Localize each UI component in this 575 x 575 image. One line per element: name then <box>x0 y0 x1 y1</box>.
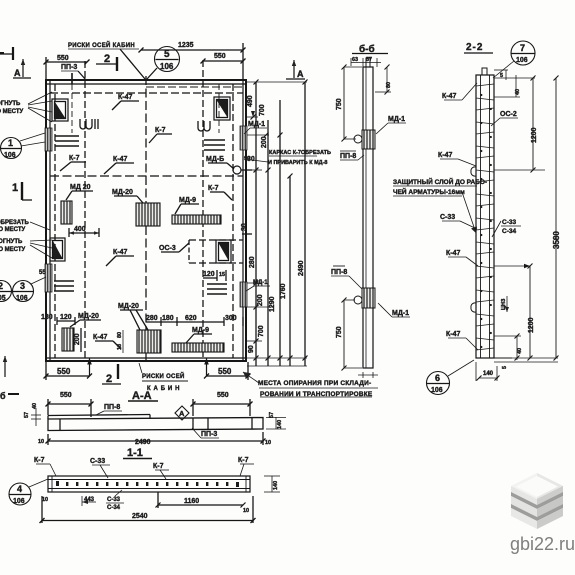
svg-text:2490: 2490 <box>298 260 305 276</box>
svg-text:2: 2 <box>104 53 110 65</box>
MD-9 bottom hatched bar <box>172 343 224 352</box>
2-2 label K-47 no1 <box>442 83 477 100</box>
small dims 80 18 bottom center <box>117 330 123 353</box>
svg-text:К-7: К-7 <box>34 457 45 464</box>
svg-text:К-7: К-7 <box>208 185 219 192</box>
2-2 loop bumps left <box>471 167 476 176</box>
svg-text:К-47: К-47 <box>113 156 127 163</box>
svg-text:106: 106 <box>13 498 25 505</box>
b-b label PP-8 top <box>340 151 364 160</box>
svg-text:2: 2 <box>0 281 3 291</box>
section A arrow top-right <box>286 60 305 79</box>
section A arrow top-left <box>13 59 31 78</box>
b-b label MD-1 bottom <box>378 303 410 317</box>
dimension 1235 top <box>139 42 246 79</box>
svg-text:ПП-8: ПП-8 <box>331 269 347 276</box>
svg-text:К-7: К-7 <box>153 463 164 470</box>
svg-text:МД-1: МД-1 <box>253 280 268 286</box>
svg-text:ЗАЩИТНЫЙ СЛОЙ ДО РАБО-: ЗАЩИТНЫЙ СЛОЙ ДО РАБО- <box>393 177 487 186</box>
2-2 label K-47 no3 <box>446 250 478 266</box>
circle 1/106 <box>1 133 46 159</box>
svg-text:ЧЕЙ АРМАТУРЫ-16мм: ЧЕЙ АРМАТУРЫ-16мм <box>393 187 465 196</box>
axis dashed vertical x233 <box>232 84 234 358</box>
2-2 dim 140 bottom <box>476 362 500 381</box>
2-2 dim 3580 <box>494 76 561 361</box>
svg-text:550: 550 <box>57 367 71 376</box>
anchor plate bottom-left box <box>50 238 65 261</box>
svg-text:1200: 1200 <box>531 127 538 143</box>
circle 3/106 <box>13 277 47 302</box>
svg-text:90: 90 <box>248 345 255 353</box>
svg-text:750: 750 <box>336 98 343 110</box>
right dim chain line x300 <box>289 176 291 366</box>
svg-text:К-7: К-7 <box>155 127 166 134</box>
right chain slash ticks <box>251 80 308 361</box>
A-A small dim 57 left <box>24 408 41 426</box>
logo slab1 side <box>511 486 563 505</box>
svg-text:2-2: 2-2 <box>466 42 483 53</box>
svg-text:300: 300 <box>225 315 237 322</box>
svg-text:106: 106 <box>516 57 528 64</box>
anchor plate top-right triangle <box>217 100 228 118</box>
svg-text:К-47: К-47 <box>113 249 127 256</box>
svg-text:КАРКАС К-7ОБРЕЗАТЬ: КАРКАС К-7ОБРЕЗАТЬ <box>269 150 331 156</box>
axis dashed horizontal y93 partial <box>50 92 243 94</box>
logo gap1 dark band <box>511 492 563 509</box>
rebar bars bottom-right <box>207 284 227 294</box>
A-A label PP-3 <box>192 428 219 438</box>
note karkas K-7 obrezat <box>244 150 331 166</box>
1-1 label K-7 mid <box>153 463 169 479</box>
svg-text:МД-20: МД-20 <box>118 303 139 310</box>
anchor plate bottom-right box <box>216 240 231 263</box>
logo slab2 side <box>511 496 563 517</box>
svg-text:С-34: С-34 <box>107 505 121 511</box>
section mark 2 bottom <box>102 364 121 385</box>
svg-text:550: 550 <box>214 53 226 60</box>
svg-text:1: 1 <box>12 182 18 194</box>
note riski osei kabin top <box>68 41 145 79</box>
1-1 dim 1160 <box>156 492 246 508</box>
label K-47 bottom <box>93 334 121 349</box>
2-2 dim 1200 bottom <box>494 264 535 361</box>
svg-text:РИСКИ ОСЕЙ: РИСКИ ОСЕЙ <box>142 372 185 380</box>
svg-text:1290: 1290 <box>269 296 276 312</box>
label MD 20 left <box>66 184 93 200</box>
svg-text:5: 5 <box>164 49 170 60</box>
2-2 dim 5 top <box>494 70 508 80</box>
b-b dim 750 top <box>336 65 362 142</box>
lifting loop circle right <box>233 166 241 174</box>
svg-text:700: 700 <box>258 325 265 337</box>
1-1 dim 443 <box>82 496 96 506</box>
circle 7/106 <box>493 41 535 78</box>
plan view panel outline outer <box>46 80 246 361</box>
section 1-1 title <box>123 447 152 459</box>
dim 30 at loop <box>241 156 255 176</box>
svg-text:200: 200 <box>261 136 268 148</box>
svg-text:ОТОГНУТЬ: ОТОГНУТЬ <box>0 239 23 245</box>
svg-text:18: 18 <box>117 344 123 350</box>
svg-text:С-34: С-34 <box>502 228 516 235</box>
1-1 rebar dots <box>56 481 239 487</box>
svg-text:ПО МЕСТУ: ПО МЕСТУ <box>0 109 23 115</box>
svg-text:40: 40 <box>32 403 38 409</box>
rebar bars top-right <box>204 140 225 150</box>
svg-text:140: 140 <box>483 371 494 377</box>
bottom dim 550 left <box>44 362 93 380</box>
svg-text:gbi22.ru: gbi22.ru <box>510 534 575 554</box>
svg-text:700: 700 <box>259 104 266 116</box>
label K-7 upper center <box>149 127 172 143</box>
label MD-1 right <box>244 121 267 134</box>
anchor plate bottom-right triangle <box>219 243 229 261</box>
svg-text:А: А <box>179 409 185 418</box>
b-b label MD-1 top <box>376 116 406 134</box>
circle 5/106 <box>147 47 180 80</box>
OC-3 dashed box bottom <box>189 262 243 264</box>
dim 90 bottom right vertical <box>248 345 255 353</box>
A-A dim 550 right <box>191 392 253 416</box>
note mesta opiraniya <box>243 372 378 398</box>
anchor plate top-left box <box>52 99 68 121</box>
A-A dim 550 left <box>46 392 94 417</box>
svg-text:К-47: К-47 <box>93 334 107 341</box>
svg-text:1160: 1160 <box>184 498 199 505</box>
b-b top dims 63 57 <box>351 57 381 67</box>
2-2 bottom base line <box>476 358 558 362</box>
svg-text:6: 6 <box>435 373 440 383</box>
svg-text:10: 10 <box>265 440 271 446</box>
svg-text:К-7: К-7 <box>69 155 80 162</box>
OC-3 dashed box top <box>189 239 243 241</box>
MD-20 bottom-left hatched block <box>62 328 74 351</box>
svg-text:5: 5 <box>502 366 508 369</box>
label OC-3 <box>159 243 189 252</box>
svg-text:105: 105 <box>0 295 6 302</box>
svg-text:1-1: 1-1 <box>127 447 143 459</box>
plan inner border left <box>49 80 51 361</box>
svg-text:К А Б И Н: К А Б И Н <box>147 386 180 392</box>
section 2-2 cut dashed centerline <box>145 76 147 362</box>
svg-text:ПП-8: ПП-8 <box>340 153 356 160</box>
svg-text:А: А <box>14 68 21 78</box>
marker b left with arrow <box>0 356 19 401</box>
svg-text:3: 3 <box>20 281 25 291</box>
2-2 dim 40 bottom <box>494 334 523 361</box>
1-1 beam outline <box>48 476 250 492</box>
MD-9 hatched bar <box>172 215 221 224</box>
svg-text:106: 106 <box>160 62 174 71</box>
label MD-1 lower right <box>246 280 270 291</box>
svg-text:280: 280 <box>146 315 158 322</box>
svg-text:А-А: А-А <box>132 390 152 402</box>
svg-text:МЕСТА ОПИРАНИЯ ПРИ СКЛАДИ-: МЕСТА ОПИРАНИЯ ПРИ СКЛАДИ- <box>258 380 371 387</box>
svg-text:ПП-3: ПП-3 <box>61 64 77 71</box>
svg-text:К-47: К-47 <box>438 152 452 159</box>
A-A label PP-8 <box>96 404 122 415</box>
svg-text:МД-1: МД-1 <box>388 116 405 123</box>
axis dashed vertical x204 <box>202 60 204 358</box>
svg-text:МД-20: МД-20 <box>112 189 133 196</box>
svg-text:МД-20: МД-20 <box>78 313 99 320</box>
2-2 top stub <box>482 68 487 75</box>
svg-text:МД-9: МД-9 <box>179 197 196 204</box>
MD-20 bottom-center hatched block <box>137 330 161 353</box>
MD-20 left hatched block <box>61 201 72 224</box>
1-1 label C-33 <box>90 458 110 478</box>
svg-text:80: 80 <box>117 332 123 338</box>
svg-text:А: А <box>297 69 304 79</box>
b-b dim 750 bottom <box>336 298 362 371</box>
A-A dim 57 right <box>266 412 286 429</box>
svg-text:180: 180 <box>162 315 174 322</box>
svg-text:620: 620 <box>185 315 197 322</box>
svg-text:400: 400 <box>74 226 86 233</box>
2-2 column body <box>476 75 494 358</box>
svg-text:550: 550 <box>57 55 69 62</box>
2-2 dim 40 top <box>494 75 521 97</box>
circle 4/106 <box>9 479 48 505</box>
note ne obrezat po mestu <box>0 220 50 233</box>
A-A beam outline <box>48 415 263 431</box>
svg-text:1760: 1760 <box>280 283 287 299</box>
2-2 label C-33 <box>440 214 477 229</box>
section mark 1 left <box>12 182 32 200</box>
svg-text:РИСКИ ОСЕЙ КАБИН: РИСКИ ОСЕЙ КАБИН <box>68 41 135 49</box>
svg-text:б: б <box>0 391 6 401</box>
axis dashed horizontal y87 <box>146 86 243 88</box>
svg-text:ПО МЕСТУ: ПО МЕСТУ <box>0 247 25 253</box>
svg-text:К-47: К-47 <box>446 331 460 338</box>
label MD-20 bottom-left <box>70 313 101 327</box>
label K-47 lower <box>106 249 134 266</box>
svg-text:К-7: К-7 <box>238 457 249 464</box>
anchor plate top-left triangle <box>55 102 66 119</box>
svg-text:7: 7 <box>520 43 525 53</box>
svg-text:106: 106 <box>4 152 16 159</box>
dim 300 bottom <box>224 315 243 326</box>
1-1 label K-7 right <box>238 457 254 476</box>
svg-text:1235: 1235 <box>178 42 194 49</box>
OC-3 dashed box left <box>188 240 190 263</box>
bottom dim 550 right <box>204 362 251 380</box>
2-2 rebar dots <box>480 94 492 348</box>
label MD-20 bottom-center with two leaders <box>118 303 148 330</box>
rebar bars top-left <box>55 136 79 146</box>
b-b bottom ticks <box>358 372 378 378</box>
svg-text:МД-1: МД-1 <box>248 121 265 128</box>
svg-text:180: 180 <box>41 314 53 321</box>
2-2 label K-47 no4 <box>446 331 478 350</box>
label MD-9 <box>175 197 199 214</box>
dim 200 vertical bottom-left <box>74 328 81 352</box>
label K-47 top <box>112 94 139 110</box>
svg-text:30: 30 <box>241 223 248 231</box>
dim 120 bottom-left <box>57 314 75 325</box>
note riski osei kabin bottom <box>139 363 188 392</box>
svg-text:120: 120 <box>203 271 215 278</box>
section A-A title <box>128 390 158 402</box>
circle 6/106 <box>427 360 475 395</box>
label MD-B mid-right <box>206 156 234 169</box>
svg-text:1: 1 <box>8 138 13 148</box>
label K-47 mid-left <box>104 156 134 174</box>
1-1 label C-33/C-34 <box>106 490 124 511</box>
right dim chain line x280 <box>279 100 281 366</box>
svg-text:МД-Б: МД-Б <box>206 156 224 163</box>
dim 30 lower right <box>241 223 252 234</box>
support mark left <box>87 358 92 376</box>
svg-text:10: 10 <box>42 497 48 503</box>
note otognut po mestu top-left <box>0 92 52 122</box>
svg-text:К-47: К-47 <box>118 94 132 101</box>
2-2 column ties <box>476 84 494 350</box>
section b-b title <box>352 43 388 55</box>
axis dashed vertical x55 <box>54 84 56 358</box>
rebar splice hatch right border bottom <box>240 282 247 307</box>
dim 620 bottom <box>177 315 224 322</box>
svg-text:ПП-3: ПП-3 <box>201 431 217 438</box>
svg-text:ПП-8: ПП-8 <box>104 404 120 411</box>
svg-text:57: 57 <box>24 412 30 418</box>
svg-text:10: 10 <box>38 439 44 445</box>
svg-text:550: 550 <box>218 367 232 376</box>
b-b column body <box>363 58 373 368</box>
svg-text:НЕ ОБРЕЗАТЬ: НЕ ОБРЕЗАТЬ <box>0 220 29 226</box>
b-b dim 80 top right <box>375 65 392 95</box>
A-A diamond A marker <box>175 406 189 420</box>
svg-text:140: 140 <box>277 420 283 429</box>
b-b top stub <box>366 58 370 67</box>
svg-text:С-33: С-33 <box>440 214 455 221</box>
note otognut po mestu bottom-left <box>0 239 52 258</box>
svg-text:550: 550 <box>60 392 72 399</box>
dimension 550 top-left <box>44 55 90 79</box>
svg-text:МД 20: МД 20 <box>70 184 91 191</box>
2-2 label K-47 no2 <box>438 152 476 166</box>
svg-text:4: 4 <box>17 484 22 494</box>
label K-7 left <box>60 155 86 171</box>
logo gap2 dark band <box>511 504 563 521</box>
2-2 dim 1200 top <box>494 76 545 173</box>
1-1 dim 2540 <box>40 496 256 523</box>
svg-text:ПО МЕСТУ: ПО МЕСТУ <box>0 227 25 233</box>
svg-text:К-47: К-47 <box>446 250 460 257</box>
b-b label PP-8 bottom <box>331 266 363 290</box>
A-A dim 2490 <box>38 432 271 446</box>
svg-text:120: 120 <box>60 314 72 321</box>
svg-text:С-33: С-33 <box>90 458 105 465</box>
svg-text:200: 200 <box>74 333 81 345</box>
svg-text:90: 90 <box>244 156 250 162</box>
anchor plate top-right box <box>214 97 230 120</box>
svg-text:С-33: С-33 <box>502 219 516 226</box>
rebar splice hatch left border top <box>45 128 52 151</box>
2-2 label C-33/C-34 right <box>492 219 521 237</box>
logo slab1 top face <box>511 473 563 499</box>
dim 400 local <box>69 226 99 237</box>
svg-text:106: 106 <box>16 295 28 302</box>
svg-text:40: 40 <box>517 348 523 354</box>
b-b coil bottom <box>354 288 375 308</box>
axis dashed horizontal middle y176 <box>50 175 243 177</box>
note zashchitny sloi <box>393 177 487 233</box>
svg-text:10: 10 <box>243 508 249 514</box>
svg-text:2490: 2490 <box>135 439 151 446</box>
rebar splice hatch left border bottom <box>45 264 52 292</box>
riska tick top <box>71 73 73 84</box>
svg-text:490: 490 <box>247 95 254 107</box>
svg-text:С-33: С-33 <box>107 497 121 503</box>
plan inner border top <box>46 83 246 85</box>
support mark right <box>204 358 209 376</box>
corner tick top-left of sheet <box>0 47 13 60</box>
MD-20 center hatched block <box>136 203 160 226</box>
svg-text:550: 550 <box>217 392 229 399</box>
svg-text:И ПРИВАРИТЬ К МД-8: И ПРИВАРИТЬ К МД-8 <box>268 160 327 166</box>
right extension lines <box>247 82 307 366</box>
dim 120 bottom right local <box>203 270 226 281</box>
svg-text:2540: 2540 <box>132 513 148 520</box>
svg-text:140: 140 <box>273 481 279 490</box>
svg-text:55: 55 <box>39 270 46 276</box>
1-1 label K-7 left <box>34 457 56 476</box>
svg-text:К-47: К-47 <box>442 93 456 100</box>
svg-text:3580: 3580 <box>552 231 561 249</box>
svg-text:МД-9: МД-9 <box>192 327 209 334</box>
dimension 550 top-right <box>201 53 246 64</box>
right dim chain line x256 <box>255 82 257 366</box>
svg-text:ОС-3: ОС-3 <box>159 245 176 252</box>
right dim chain line x268 <box>267 120 269 366</box>
2-2 small label NZ <box>501 296 509 312</box>
rebar bars bottom-left <box>54 281 74 291</box>
circle 2/105 partial <box>0 281 12 303</box>
plan inner border right <box>242 80 244 361</box>
gbi22 logo slab stack <box>511 473 563 529</box>
plan inner border bottom <box>46 357 246 359</box>
label MD-9 bottom <box>186 327 212 343</box>
rebar hook top-right <box>198 121 210 131</box>
svg-text:750: 750 <box>336 326 343 338</box>
svg-text:200: 200 <box>257 294 264 306</box>
label MD-20 center <box>112 189 143 203</box>
1-1 dim 140 right <box>264 476 280 492</box>
section 2-2 title <box>464 42 493 53</box>
axis dashed vertical x85 <box>84 61 86 358</box>
label K-7 right <box>208 185 232 200</box>
svg-text:106: 106 <box>431 387 443 394</box>
2-2 label OC-2 <box>491 111 518 126</box>
svg-text:57: 57 <box>269 412 275 418</box>
label PP-3 top <box>61 64 86 80</box>
svg-text:2: 2 <box>106 373 112 385</box>
svg-text:1200: 1200 <box>528 317 535 333</box>
svg-text:15: 15 <box>219 272 225 278</box>
svg-text:ОС-2: ОС-2 <box>500 111 517 118</box>
dims 280 180 bottom <box>146 315 177 326</box>
b-b coil top <box>354 130 375 149</box>
anchor plate bottom-left triangle <box>53 241 63 259</box>
logo slab3 side <box>511 508 563 529</box>
rebar hook top-left <box>80 119 98 129</box>
svg-text:280: 280 <box>249 256 256 268</box>
rebar splice hatch right border top <box>240 126 247 150</box>
svg-text:МД-1: МД-1 <box>392 310 409 317</box>
svg-text:ОТОГНУТЬ: ОТОГНУТЬ <box>0 101 21 107</box>
section mark 2 top <box>96 53 117 71</box>
